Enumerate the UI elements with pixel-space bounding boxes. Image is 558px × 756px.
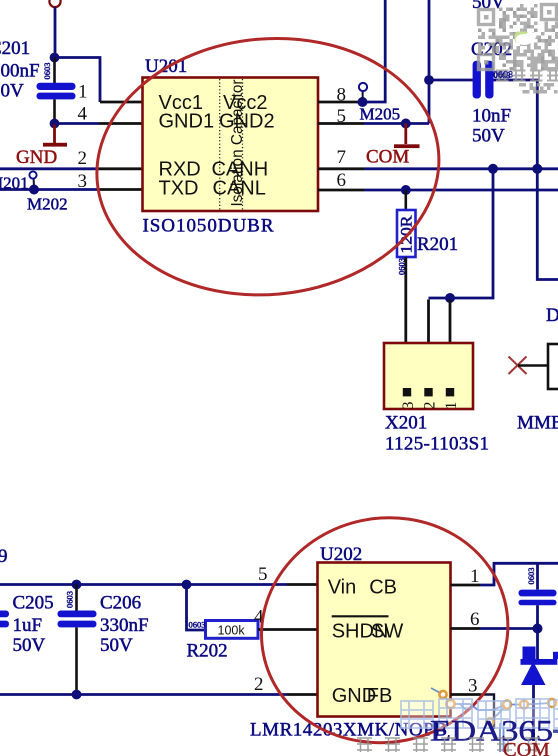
ground GND symbol [43,124,67,147]
regulator U202 body [318,563,451,717]
schottky diode cathode hooks and bar [521,647,558,665]
pin 8 stub [318,101,362,104]
resistor R202 body [206,621,259,639]
red highlight ellipse around U202 [241,496,528,756]
svg-text:C206: C206 [100,593,141,614]
node X201 pin1 junction [445,293,455,303]
wire CB to boot cap [480,563,558,585]
wire R202 drop [187,585,206,631]
svg-text:0603: 0603 [493,70,513,80]
wire TXD pin3 [0,188,99,191]
svg-text:GND1: GND1 [159,111,215,133]
svg-text:X201: X201 [385,413,427,434]
svg-text:50V: 50V [0,81,24,102]
schottky diode anode triangle [521,662,546,686]
connector X201 body [384,343,473,409]
wire RXD pin2 [0,167,99,170]
pin 4 stub [99,122,143,125]
wire node to pin1 bend [55,58,101,103]
wire FB drop [480,695,494,730]
svg-text:C201: C201 [0,38,30,59]
capacitor C201 top lead [53,58,56,84]
op-chip U201 body [143,78,319,212]
no-connect X marker [509,357,527,375]
svg-text:GND2: GND2 [219,111,275,133]
pin 5 stub [318,122,364,125]
capacitor C206 plates [58,611,97,628]
wire pin4 to C201 bottom [55,122,100,125]
red highlight ellipse around U201 [86,24,450,310]
wire Vin net top [0,583,287,586]
X201 pin2 pad square [424,388,432,396]
watermark pcb pads [439,691,556,725]
svg-text:9: 9 [0,546,8,567]
wire SW to node [480,627,538,630]
svg-text:ISO1050DUBR: ISO1050DUBR [143,216,274,237]
capacitor C201 plates [37,83,76,100]
wire X201 pin1 drop [449,300,452,344]
node C206 bottom junction [72,690,82,700]
svg-text:U202: U202 [320,544,362,565]
svg-text:D2: D2 [546,305,558,326]
pin name SHDN with overline [332,616,389,642]
svg-text:2: 2 [422,402,439,410]
diode D2 lead top [536,629,539,661]
power terminal circle top of C201 [49,0,60,7]
capacitor C204 plates [519,590,557,606]
node COM junction [401,119,411,129]
svg-text:1uF: 1uF [13,615,43,636]
pin 3 stub [99,188,143,191]
boot cap drop [536,563,539,589]
svg-text:10nF: 10nF [472,106,511,127]
QR watermark block [478,4,558,94]
wire vertical from top at x=428.4 [428,0,431,124]
wire CANL pin6 long [364,189,558,192]
svg-text:1: 1 [78,82,88,103]
svg-text:Vin: Vin [328,577,357,599]
node M205 junction [358,97,368,107]
svg-text:C205: C205 [13,593,54,614]
resistor R201 body [397,210,416,257]
svg-text:6: 6 [470,609,480,630]
capacitor C204 bottom lead [536,605,539,628]
diode D body (clipped) [548,344,558,389]
label C206 [100,593,149,657]
svg-text:6: 6 [337,170,347,191]
pin 5 stub U202 [287,583,318,586]
svg-text:R201: R201 [417,234,458,255]
pin 6 stub [318,189,364,192]
wechat green blob [515,32,530,44]
svg-text:1: 1 [443,402,460,410]
node SW junction [533,624,543,634]
svg-text:MMBZ5: MMBZ5 [517,413,558,434]
wire CANH pin7 long [364,167,558,170]
watermark gray glyph row [357,738,540,752]
svg-text:0603: 0603 [526,568,536,585]
svg-text:50V: 50V [100,635,133,656]
label C202 [471,39,512,147]
svg-text:FB: FB [367,685,393,707]
svg-text:M202: M202 [27,195,68,214]
capacitor C205 plates (clipped) [0,611,9,628]
svg-text:100nF: 100nF [0,61,40,82]
svg-text:0603: 0603 [65,591,75,608]
ground COM symbol [394,124,420,149]
wire pin5 to COM node and C202 drop [364,122,429,125]
svg-text:COM: COM [366,147,409,168]
wire C202 right lead and drop to pin7 net [494,80,538,169]
svg-text:TXD: TXD [159,177,199,199]
pin 4 wire from R202 [258,628,318,631]
svg-text:M205: M205 [360,105,401,124]
X201 pin1 pad square [446,388,454,396]
svg-text:SW: SW [371,621,403,643]
node M202 junction on pin3 wire [29,185,39,195]
capacitor C202 plates [473,61,494,99]
node C206 top junction [72,580,82,590]
wire C202 left lead [429,79,473,82]
svg-text:7: 7 [337,147,347,168]
svg-text:2: 2 [78,148,88,169]
svg-text:0603: 0603 [189,620,206,630]
X201 pin3 pad square [403,388,411,396]
svg-text:50V: 50V [13,635,46,656]
svg-text:5: 5 [258,564,268,585]
node R202 top junction [182,580,192,590]
svg-text:1125-1103S1: 1125-1103S1 [385,434,489,455]
pin 2 stub [99,167,143,170]
pin 1 stub U202 [451,584,481,587]
svg-text:50V: 50V [472,126,505,147]
wire GND net bottom [0,693,287,696]
wechat contact gray glyphs [496,71,558,82]
diode bottom lead [532,685,535,741]
pin 3 stub U202 [451,693,481,696]
capacitor C206 bottom lead [75,627,78,694]
watermark dash after EDA365 [553,730,558,733]
diode D lead [518,364,548,367]
node C201-top junction [50,53,60,63]
wire CANH drop to X201 [429,169,494,298]
test point M201 circle and stem [29,171,36,186]
svg-text:100k: 100k [218,624,246,638]
pin 1 stub [100,101,143,104]
svg-text:GND: GND [16,147,57,168]
svg-text:2: 2 [254,674,264,695]
svg-text:3: 3 [78,171,88,192]
node CANH-x493 junction [488,164,498,174]
test point M205 circle and stem [359,83,367,99]
node R201 junction [401,185,411,195]
capacitor C201 bottom lead [53,99,56,123]
capacitor C206 top lead [75,585,78,611]
watermark big outlined glyphs [401,699,558,728]
node C201-bottom junction [50,119,60,129]
pin 6 stub U202 [451,627,481,630]
svg-text:M201: M201 [0,174,29,193]
wire from terminal to C201 top node [54,7,57,57]
svg-text:0603: 0603 [42,63,52,80]
svg-text:R202: R202 [187,641,228,662]
node CANH-x537 junction [532,164,542,174]
wire from top at x=386.7 to M205 node [364,0,385,102]
node C202-left junction [424,75,434,85]
label C205 [13,593,54,657]
svg-text:330nF: 330nF [100,615,149,636]
wire C202-net drop and exit right [537,169,558,280]
label C201 value [0,38,40,102]
pin 7 stub [318,167,364,170]
watermark pcb traces [431,688,552,752]
isolation dotted line right [242,79,244,210]
svg-text:4: 4 [78,104,88,125]
svg-text:CANL: CANL [213,177,266,199]
svg-text:3: 3 [400,402,417,410]
pin 2 stub U202 [287,693,318,696]
svg-text:CB: CB [369,577,397,599]
svg-text:COM: COM [503,739,550,756]
wire X201 pin2 drop [427,300,430,344]
isolation dotted line left [219,79,221,210]
resistor R201 top lead [404,190,407,210]
resistor R201 bottom lead to X201 pin3 [404,257,407,343]
